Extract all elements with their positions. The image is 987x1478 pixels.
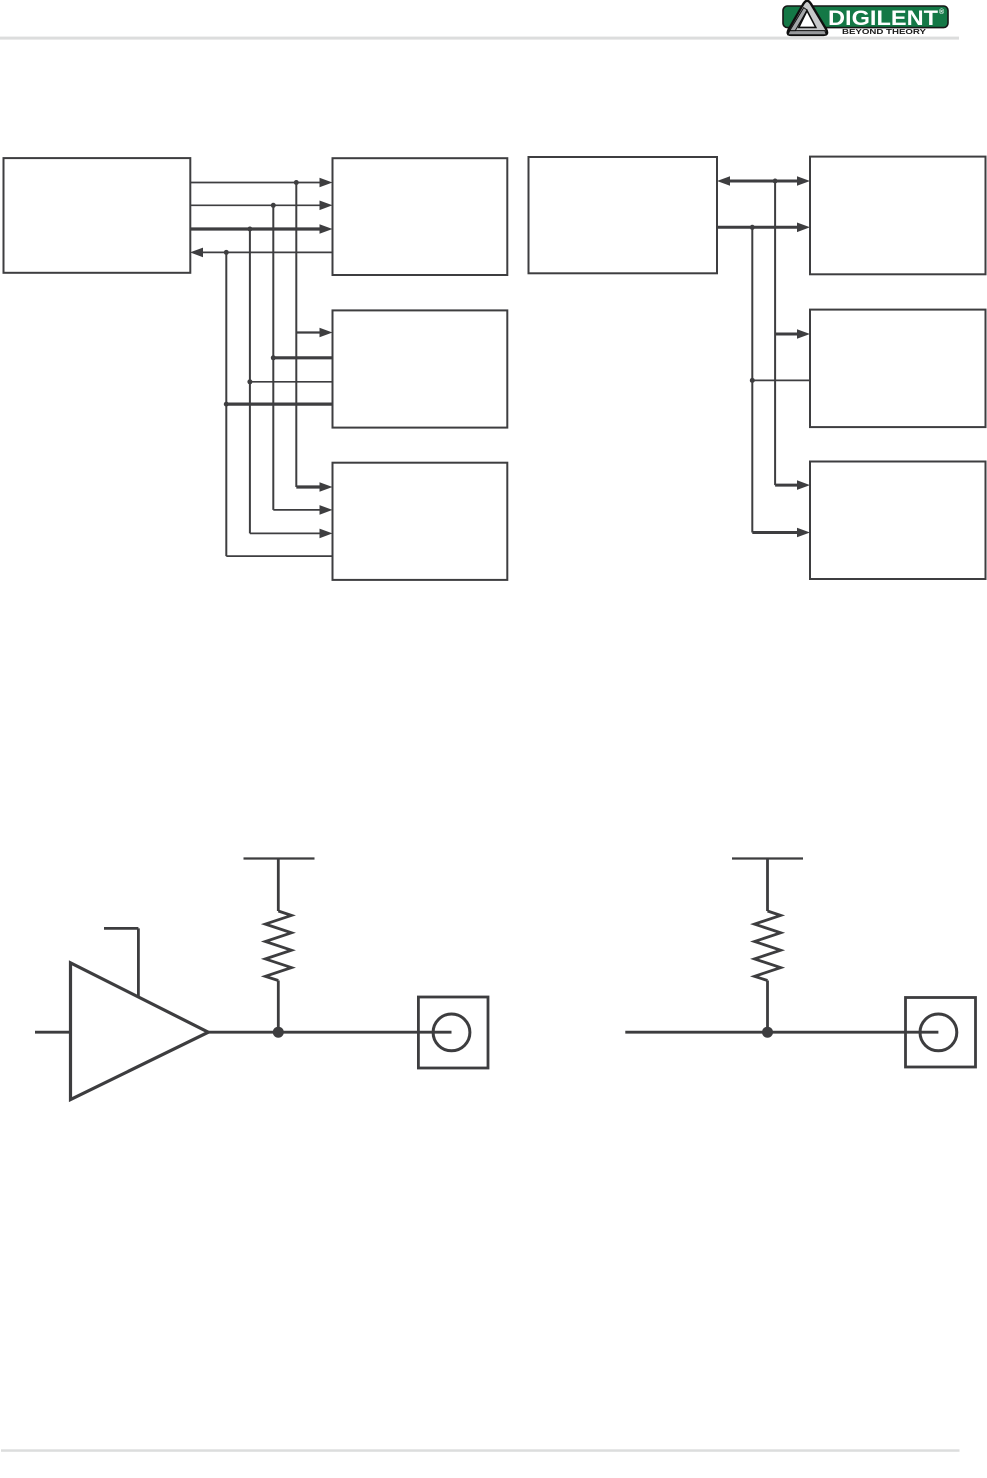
svg-text:®: ® (939, 8, 945, 16)
tri-state buffer U1 (71, 963, 209, 1100)
junction node: output/pull-up (273, 1027, 284, 1038)
arrowhead into R1 line3 (320, 224, 333, 234)
block: host/controller box L1 (4, 158, 191, 273)
block: peripheral box R6 (bottom) (810, 462, 986, 580)
block: peripheral box R1 (top) (333, 158, 508, 275)
wire: V3 elbow into R3 (250, 532, 321, 534)
arrowhead into R5 (797, 329, 810, 339)
resistor R2 (pull-up) zigzag (755, 911, 781, 981)
block: controller box L2 (529, 157, 718, 273)
wire: enable horizontal (104, 927, 138, 930)
block: peripheral box R5 (middle) (810, 310, 986, 428)
wire: L1 to R1 signal 3 (bus, thick) (190, 227, 321, 230)
junction dot on line3/V3 (247, 227, 252, 232)
junction dot V3/R2 (247, 379, 252, 384)
connector J1 pad (square) (418, 997, 488, 1068)
resistor R1 (pull-up) zigzag (265, 911, 291, 981)
junction dot busB/V6 (750, 225, 755, 230)
connector J1 pin (circle) (433, 1014, 470, 1051)
vertical bus V6 (751, 227, 753, 532)
connector J2 pin (circle) (920, 1014, 957, 1051)
wire: enable vertical to buffer (137, 928, 140, 996)
wire: V4 branch to R2 (thick) (226, 403, 332, 406)
wire: V6 branch to R5 (no arrow) (752, 379, 810, 381)
arrowhead into R2 (320, 328, 333, 338)
wire: signal line to connector (625, 1031, 938, 1034)
arrowhead into R4 (797, 223, 810, 233)
junction node: signal/pull-up (762, 1027, 773, 1038)
svg-text:BEYOND THEORY: BEYOND THEORY (842, 29, 926, 36)
wire: V5 elbow into R6 (thick) (775, 484, 798, 487)
Digilent logo impossible-triangle emblem (788, 1, 827, 35)
power rail bar (VCC) right (732, 857, 803, 859)
header rule (0, 37, 959, 40)
wire: L2 to R4 (thick) (717, 226, 798, 229)
arrowhead right into R4 (797, 176, 810, 186)
wire: V2 branch to R2 (thick) (273, 356, 332, 359)
vertical bus V3 (249, 229, 251, 533)
svg-text:DIGILENT: DIGILENT (828, 6, 938, 30)
arrowhead into R3 line2 (320, 505, 333, 515)
footer rule (1, 1449, 960, 1452)
wire: resistor bottom lead (277, 981, 280, 1033)
arrowhead into R1 line1 (320, 178, 333, 188)
arrowhead into R3 line3 (320, 529, 333, 539)
arrowhead into R6 line1 (797, 480, 810, 490)
wire: bidirectional bus L2-R4 (729, 180, 798, 183)
wire: V4 elbow into R3 (no arrow) (226, 555, 332, 557)
junction dot V6/R5 (750, 378, 755, 383)
junction dot on line1/V1 (294, 180, 299, 185)
wire: V2 elbow into R3 (273, 509, 321, 511)
power rail bar (VCC) (244, 857, 315, 859)
wire: resistor top lead right (766, 859, 769, 912)
arrowhead into R3 line1 (320, 482, 333, 492)
wire: R1 to L1 return signal 4 (202, 251, 333, 253)
block: peripheral box R3 (bottom) (333, 463, 508, 580)
block: peripheral box R4 (top) (810, 157, 986, 275)
wire: V5 branch into R5 (thick) (775, 333, 798, 336)
junction dot bus/V5 (773, 179, 778, 184)
arrowhead into L1 line4 (190, 248, 203, 258)
wire: resistor top lead (277, 859, 280, 912)
junction dot V2/R2 (271, 355, 276, 360)
block: peripheral box R2 (middle) (333, 310, 508, 427)
arrowhead left into L2 (717, 176, 730, 186)
junction dot on line2/V2 (271, 203, 276, 208)
wire: L1 to R1 signal 2 (190, 204, 321, 206)
wire: buffer input (35, 1031, 71, 1034)
arrowhead into R1 line2 (320, 201, 333, 211)
vertical bus V5 (774, 181, 776, 485)
Digilent logo green banner (783, 6, 948, 28)
wire: V1 elbow into R3 (thick) (296, 485, 321, 488)
vertical bus V4 (225, 252, 227, 556)
wire: V1 branch to R2 (296, 331, 321, 333)
wire: V6 elbow into R6 (thick) (752, 531, 798, 534)
wire: buffer output to connector (208, 1031, 451, 1034)
wire: resistor bottom lead right (766, 981, 769, 1033)
vertical bus V2 (272, 205, 274, 510)
wire: L1 to R1 signal 1 (190, 182, 321, 184)
vertical bus V1 (295, 183, 297, 488)
arrowhead into R6 line2 (797, 528, 810, 538)
junction dot V4/R2 (224, 402, 229, 407)
wire: V3 branch to R2 (250, 381, 333, 383)
connector J2 pad (square) (906, 998, 976, 1068)
junction dot on line4/V4 (224, 250, 229, 255)
